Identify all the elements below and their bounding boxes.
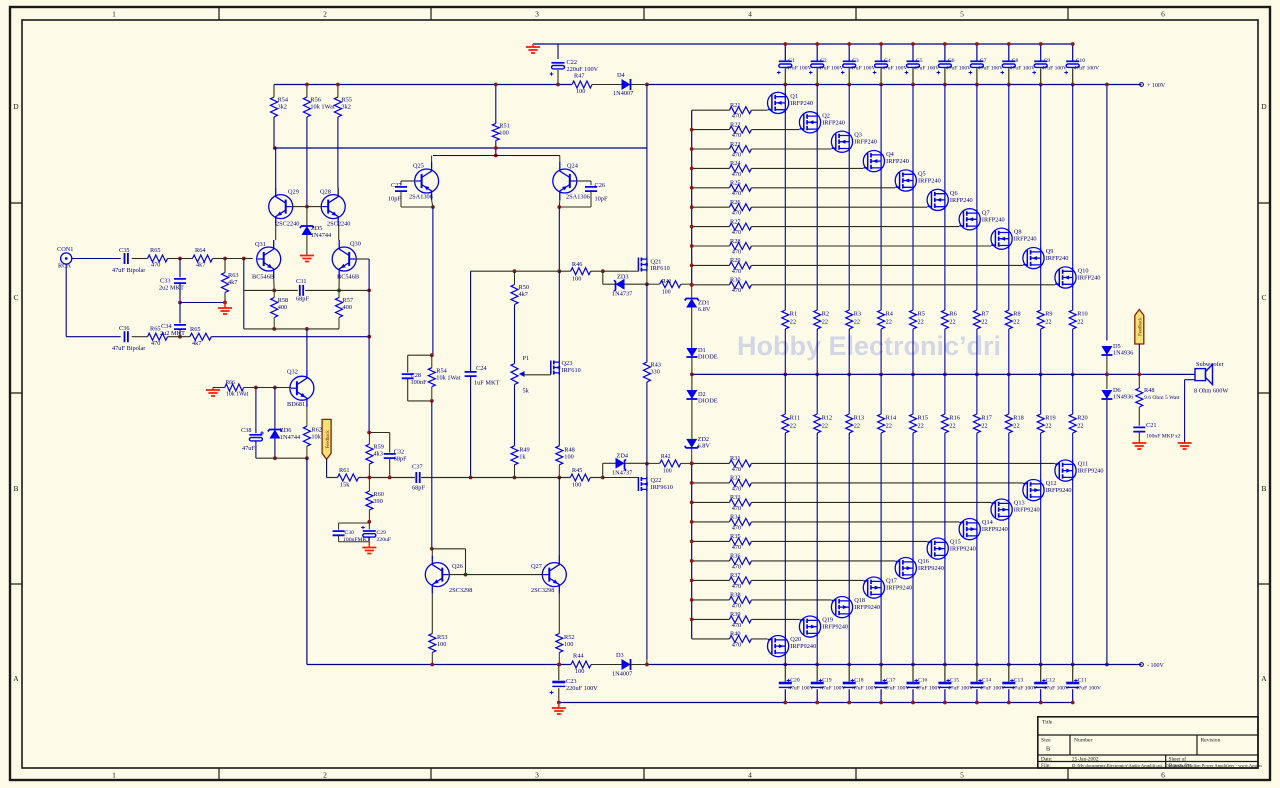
svg-text:A: A — [1261, 674, 1267, 683]
resistor R27 — [729, 223, 751, 230]
svg-text:470: 470 — [732, 248, 741, 255]
transistor Q16 — [895, 558, 916, 579]
svg-text:47uF 100V: 47uF 100V — [1074, 66, 1099, 72]
svg-text:C12: C12 — [1046, 678, 1056, 684]
resistor R25 — [729, 184, 751, 191]
wire Q25e column — [432, 207, 434, 355]
svg-text:R49: R49 — [519, 447, 530, 454]
wire Q24c up — [559, 156, 561, 163]
wire gate to Q15 — [751, 540, 927, 542]
resistor R65b — [148, 333, 168, 340]
wire D6 column — [1106, 400, 1108, 665]
wire R5 to output bus — [912, 329, 914, 374]
svg-text:ZD6: ZD6 — [280, 427, 292, 434]
svg-text:R63: R63 — [228, 272, 239, 279]
svg-text:2: 2 — [323, 10, 327, 19]
svg-text:10k 1Wat: 10k 1Wat — [226, 392, 249, 398]
svg-text:22: 22 — [918, 423, 924, 430]
svg-text:R54: R54 — [436, 368, 447, 375]
wire R60 down — [368, 510, 370, 522]
wire Q21 source down — [646, 270, 648, 284]
svg-text:100: 100 — [564, 454, 573, 461]
svg-text:ZD4: ZD4 — [617, 453, 629, 460]
svg-text:Revision: Revision — [1201, 738, 1221, 744]
svg-text:R47: R47 — [574, 73, 585, 80]
wire source Q1 — [784, 114, 786, 311]
svg-text:470: 470 — [732, 268, 741, 275]
svg-text:68pF: 68pF — [296, 296, 309, 303]
capacitor C37 — [416, 472, 419, 483]
svg-text:R5: R5 — [918, 311, 925, 318]
svg-text:220uF 100V: 220uF 100V — [566, 685, 598, 692]
svg-text:R24: R24 — [730, 160, 741, 167]
wire D2-ZD2 — [691, 399, 693, 439]
wire node2 down — [224, 259, 226, 273]
wire R3 to output bus — [848, 329, 850, 374]
transistor Q3 — [831, 131, 852, 152]
svg-text:Q1: Q1 — [790, 93, 798, 100]
wire C33-node3 — [179, 283, 181, 303]
svg-text:R40: R40 — [730, 631, 741, 638]
svg-text:47uF: 47uF — [242, 445, 255, 452]
svg-text:2: 2 — [323, 771, 327, 780]
svg-text:3: 3 — [535, 771, 539, 780]
svg-text:Number: Number — [1074, 738, 1092, 744]
transistor Q2 — [799, 112, 820, 133]
resistor R52 — [556, 634, 563, 653]
wire C21 to ground — [1138, 432, 1140, 444]
svg-text:100: 100 — [576, 88, 585, 95]
svg-text:R34: R34 — [730, 514, 741, 521]
svg-text:4k7: 4k7 — [192, 340, 201, 347]
wire Q26 collector — [431, 549, 433, 556]
transistor Q17 — [863, 577, 884, 598]
wire drain Q1 — [784, 85, 786, 93]
wire lower bias rail a — [327, 477, 338, 479]
wire C22 bottom — [557, 70, 559, 85]
svg-text:4k7: 4k7 — [519, 291, 528, 298]
svg-text:47uF 100V: 47uF 100V — [914, 66, 939, 72]
svg-text:22: 22 — [1013, 319, 1019, 326]
wire gate to Q19 — [751, 618, 799, 620]
wire R55-Q28 collector — [337, 188, 339, 195]
wire Q31e — [273, 278, 276, 290]
svg-text:C10: C10 — [1076, 58, 1086, 64]
svg-text:47uF 100V: 47uF 100V — [1042, 66, 1067, 72]
svg-text:3k2: 3k2 — [278, 104, 287, 111]
wire gate to Q17 — [751, 579, 863, 581]
svg-text:IRFP240: IRFP240 — [886, 158, 909, 165]
svg-text:47uF 100V: 47uF 100V — [1044, 686, 1069, 692]
resistor R6 — [941, 310, 948, 329]
diode D6 — [1101, 390, 1112, 399]
svg-text:R54: R54 — [278, 97, 289, 104]
svg-text:C16: C16 — [918, 678, 928, 684]
resistor R11 — [782, 414, 789, 433]
svg-text:R8: R8 — [1013, 311, 1020, 318]
capacitor C34 — [174, 325, 186, 329]
capacitor C20 — [784, 665, 786, 682]
diode D2 — [686, 390, 697, 399]
svg-text:100: 100 — [575, 668, 584, 675]
wire R47-D4 — [592, 84, 622, 86]
svg-text:3: 3 — [535, 10, 539, 19]
resistor R13 — [846, 414, 853, 433]
wire drain Q15 — [944, 559, 946, 664]
wire input bottom — [66, 336, 121, 338]
svg-text:470: 470 — [732, 113, 741, 120]
wire input top — [72, 258, 121, 260]
svg-text:Q13: Q13 — [1014, 500, 1025, 507]
wire source Q12 — [1040, 433, 1042, 480]
wire R9 to output bus — [1040, 329, 1042, 374]
wire source Q19 — [816, 433, 818, 616]
wire drain Q3 — [848, 85, 850, 132]
svg-text:C15: C15 — [950, 678, 960, 684]
svg-text:R55: R55 — [341, 97, 352, 104]
resistor R38 — [729, 596, 751, 603]
svg-text:Q23: Q23 — [562, 360, 573, 367]
svg-text:R48: R48 — [564, 447, 575, 454]
wire bus to R20 — [1072, 374, 1074, 414]
wire gate to Q4 — [751, 167, 863, 169]
resistor R31 — [729, 460, 751, 467]
svg-text:9.6 Ohm 5 Watt: 9.6 Ohm 5 Watt — [1144, 395, 1180, 401]
svg-text:10pF: 10pF — [595, 196, 608, 203]
resistor R26 — [729, 204, 751, 211]
wire R65b-R65c — [168, 336, 190, 338]
wire gate to Q5 — [751, 187, 895, 189]
capacitor C26 — [585, 187, 597, 191]
wire C31 left — [244, 289, 298, 291]
svg-text:47uF 100V: 47uF 100V — [786, 66, 811, 72]
wire gate row R37 — [692, 579, 730, 581]
resistor R53 — [429, 634, 436, 653]
svg-text:22: 22 — [790, 423, 796, 430]
svg-text:R15: R15 — [918, 415, 929, 422]
svg-text:1: 1 — [112, 771, 116, 780]
svg-text:- 100V: - 100V — [1147, 663, 1164, 669]
transistor Q6 — [927, 189, 948, 210]
svg-text:R16: R16 — [949, 415, 960, 422]
svg-text:470: 470 — [732, 132, 741, 139]
wire bus to R14 — [880, 374, 882, 414]
svg-text:C24: C24 — [476, 365, 487, 372]
wire source Q18 — [848, 433, 850, 597]
capacitor C31 — [300, 285, 303, 296]
svg-text:R51: R51 — [499, 123, 510, 130]
svg-text:22: 22 — [854, 319, 860, 326]
wire C32 column — [389, 433, 391, 453]
svg-text:C19: C19 — [822, 678, 832, 684]
svg-text:IRF610: IRF610 — [562, 367, 581, 374]
resistor R18 — [1005, 414, 1012, 433]
svg-text:400: 400 — [343, 304, 352, 311]
transistor Q5 — [895, 170, 916, 191]
svg-text:R45: R45 — [572, 467, 583, 474]
wire C28 top — [408, 354, 432, 356]
svg-text:Q15: Q15 — [950, 539, 961, 546]
transistor Q18 — [831, 597, 852, 618]
svg-text:100: 100 — [572, 276, 581, 283]
wire C30 left — [338, 523, 340, 530]
wire bus to R19 — [1040, 374, 1042, 414]
wire to R60 — [368, 478, 370, 492]
svg-text:R65: R65 — [190, 326, 201, 333]
resistor R37 — [729, 577, 751, 584]
wire node3-C34 — [179, 303, 181, 324]
resistor R57 — [336, 298, 343, 318]
svg-text:C17: C17 — [886, 678, 896, 684]
svg-text:IRFP9240: IRFP9240 — [822, 624, 848, 631]
wire gate row R34 — [692, 521, 730, 523]
svg-text:22: 22 — [790, 319, 796, 326]
wire ZD3 left — [603, 283, 616, 285]
wire -100V rail east — [647, 664, 1142, 666]
wire gate to Q20 — [751, 638, 767, 640]
svg-text:22: 22 — [918, 319, 924, 326]
wire input shield — [65, 264, 67, 337]
transistor Q10 — [1055, 267, 1076, 288]
svg-text:Q9: Q9 — [1046, 248, 1054, 255]
wire Q28e-Q30c — [338, 226, 340, 240]
wire ZD3 right — [625, 283, 647, 285]
wire source Q16 — [912, 433, 914, 558]
diode D4 — [622, 79, 631, 90]
svg-text:Q5: Q5 — [918, 171, 926, 178]
resistor R65a — [148, 255, 168, 262]
wire drain Q5 — [912, 85, 914, 170]
zener ZD4 — [616, 458, 625, 469]
terminal +100V — [1140, 83, 1144, 87]
svg-text:330: 330 — [650, 369, 659, 376]
wire Q27 collector up — [558, 478, 560, 557]
capacitor C13 — [1008, 665, 1010, 682]
svg-text:22: 22 — [886, 319, 892, 326]
resistor R22 — [729, 126, 751, 133]
svg-text:R46: R46 — [572, 261, 583, 268]
wire ZD4 right — [625, 462, 647, 464]
svg-text:47uF 100V: 47uF 100V — [948, 686, 973, 692]
svg-text:D: D — [1261, 102, 1267, 111]
transistor Q32 — [290, 376, 314, 400]
svg-text:22: 22 — [854, 423, 860, 430]
capacitor C1 — [784, 44, 786, 61]
wire Q30 base column — [368, 259, 370, 290]
svg-text:47uF 100V: 47uF 100V — [882, 66, 907, 72]
capacitor C7 — [976, 44, 978, 61]
svg-text:R65: R65 — [150, 326, 161, 333]
resistor R62 — [303, 426, 310, 446]
wire rail-R55 — [337, 85, 339, 98]
svg-text:R30: R30 — [730, 277, 741, 284]
wire gate row R26 — [692, 206, 730, 208]
wire C23 to node — [558, 688, 560, 702]
wire Q24 base — [576, 180, 591, 182]
wire R51 down — [495, 141, 497, 156]
wire rail to C23 — [558, 665, 560, 681]
transistor Q14 — [959, 519, 980, 540]
svg-text:R53: R53 — [437, 634, 448, 641]
svg-text:Q3: Q3 — [854, 132, 862, 139]
resistor R9 — [1037, 310, 1044, 329]
svg-text:R31: R31 — [730, 455, 741, 462]
wire ZD4 left — [603, 462, 616, 464]
wire gate row R22 — [692, 129, 730, 131]
svg-text:68pF: 68pF — [412, 485, 425, 492]
transistor Q9 — [1023, 248, 1044, 269]
svg-text:IRFP9240: IRFP9240 — [1046, 487, 1072, 494]
svg-text:470: 470 — [732, 229, 741, 236]
svg-text:22: 22 — [949, 319, 955, 326]
svg-text:3k2: 3k2 — [341, 104, 350, 111]
svg-text:470: 470 — [732, 525, 741, 532]
svg-text:470: 470 — [732, 505, 741, 512]
wire base Q31 — [244, 258, 253, 260]
capacitor C30 — [333, 531, 345, 535]
resistor R46 — [571, 268, 591, 275]
wire bus to R12 — [816, 374, 818, 414]
svg-text:BC546B: BC546B — [252, 274, 274, 281]
capacitor C5 — [912, 44, 914, 61]
wire gate row R36 — [692, 560, 730, 562]
wire gate to Q14 — [751, 521, 959, 523]
ground ZD5 — [300, 256, 314, 262]
resistor R51 — [492, 124, 499, 141]
wire gate row R21 — [692, 109, 730, 111]
svg-text:R52: R52 — [564, 634, 575, 641]
wire ZD6 column — [274, 388, 276, 430]
svg-text:22: 22 — [886, 423, 892, 430]
wire R54b bottom — [431, 387, 433, 401]
wire source Q8 — [1008, 249, 1010, 310]
svg-text:1N4744: 1N4744 — [280, 434, 301, 441]
capacitor C36 — [125, 331, 128, 342]
wire to R43 — [646, 284, 648, 362]
wire Q23-R48b — [558, 373, 560, 446]
svg-text:R37: R37 — [730, 572, 741, 579]
svg-text:1N4936: 1N4936 — [1113, 394, 1133, 401]
svg-text:D3: D3 — [616, 652, 624, 659]
wire bus-ZD1 — [691, 285, 693, 299]
wire C35-R65 — [132, 258, 148, 260]
svg-text:15k: 15k — [340, 482, 350, 489]
wire speaker return — [1185, 379, 1195, 381]
svg-text:R66: R66 — [225, 380, 235, 386]
svg-text:47uF 100V: 47uF 100V — [852, 686, 877, 692]
wire C38 column — [255, 388, 257, 434]
svg-text:R38: R38 — [730, 592, 741, 599]
wire R54b top — [431, 355, 433, 368]
wire cascode rail — [274, 147, 647, 149]
transistor Q23 — [550, 361, 552, 375]
svg-text:Q8: Q8 — [1014, 229, 1022, 236]
wire R44-D3 — [591, 664, 622, 666]
svg-text:BC546B: BC546B — [337, 274, 359, 281]
wire bus to R48 — [1138, 374, 1140, 388]
wire R4 to output bus — [880, 329, 882, 374]
svg-text:2SC3298: 2SC3298 — [531, 587, 554, 594]
svg-text:Q6: Q6 — [950, 190, 958, 197]
svg-text:C28: C28 — [411, 372, 422, 379]
wire drain Q16 — [912, 579, 914, 665]
svg-text:IRFP9240: IRFP9240 — [854, 604, 880, 611]
diode D1 — [686, 348, 697, 357]
svg-text:CON1: CON1 — [57, 246, 73, 253]
wire lower gate bus — [691, 463, 693, 639]
svg-text:Q18: Q18 — [854, 597, 865, 604]
svg-text:22: 22 — [1045, 423, 1051, 430]
svg-text:47uF 100V: 47uF 100V — [1076, 686, 1101, 692]
svg-text:47uF 100V: 47uF 100V — [1010, 66, 1035, 72]
svg-text:2SC3298: 2SC3298 — [449, 587, 472, 594]
wire +100V rail west — [274, 84, 572, 86]
svg-text:22: 22 — [1045, 319, 1051, 326]
svg-text:R9: R9 — [1045, 311, 1052, 318]
resistor R15 — [910, 414, 917, 433]
svg-text:C4: C4 — [884, 58, 891, 64]
wire to R50 — [514, 271, 516, 284]
wire Q25e down — [432, 200, 433, 207]
svg-text:R19: R19 — [1045, 415, 1056, 422]
svg-text:5: 5 — [960, 10, 964, 19]
wire Q30e — [338, 278, 340, 290]
resistor R47 — [572, 81, 592, 88]
resistor R48b — [556, 446, 563, 465]
svg-text:22: 22 — [1077, 319, 1083, 326]
wire bias rail — [471, 270, 560, 272]
svg-text:BD681: BD681 — [287, 401, 305, 408]
capacitor C19 — [816, 665, 818, 682]
resistor R44 — [571, 661, 591, 668]
svg-text:Subwoofer: Subwoofer — [1196, 361, 1225, 368]
svg-text:Q10: Q10 — [1078, 268, 1089, 275]
wire bus to R13 — [848, 374, 850, 414]
wire C27 return — [401, 206, 433, 208]
wire gate row R25 — [692, 187, 730, 189]
wire gate row R35 — [692, 540, 730, 542]
svg-text:IRF610: IRF610 — [651, 265, 670, 272]
wire tail column to rail — [306, 458, 308, 664]
wire R6 to output bus — [944, 329, 946, 374]
resistor R55 — [334, 97, 341, 117]
svg-text:C32: C32 — [394, 449, 405, 456]
wire bus to R17 — [976, 374, 978, 414]
svg-text:R29: R29 — [730, 257, 741, 264]
svg-text:Q26: Q26 — [452, 563, 463, 570]
wire source Q4 — [880, 172, 882, 310]
wire ZD5-ground — [306, 235, 308, 256]
svg-text:470: 470 — [732, 642, 741, 649]
resistor R1 — [782, 310, 789, 329]
svg-text:Q11: Q11 — [1078, 461, 1089, 468]
capacitor C16 — [912, 665, 914, 682]
diode D5 — [1101, 346, 1112, 355]
svg-text:C14: C14 — [982, 678, 992, 684]
wire +rail to cascode rail — [646, 85, 648, 149]
svg-text:R64: R64 — [195, 247, 206, 254]
capacitor C21 — [1133, 427, 1145, 431]
svg-text:22: 22 — [1013, 423, 1019, 430]
svg-text:Q28: Q28 — [320, 189, 331, 196]
wire R48 to C21 — [1138, 407, 1140, 426]
wire C31 right — [305, 289, 369, 291]
svg-text:47uF 100V: 47uF 100V — [1012, 686, 1037, 692]
transistor Q28 — [321, 195, 345, 219]
wire ZD6 down — [274, 439, 276, 459]
wire Q24e column — [558, 207, 560, 271]
svg-text:10k 1Wat: 10k 1Wat — [310, 104, 334, 111]
